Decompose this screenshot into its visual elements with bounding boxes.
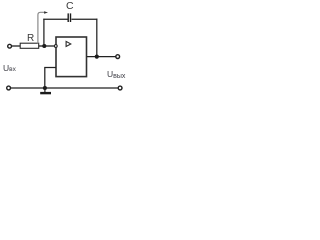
wire feedback vertical up <box>43 19 45 46</box>
node: junction dot at feedback tap <box>42 44 46 48</box>
capacitor C plates <box>67 13 69 22</box>
output terminal (right, Uвых) <box>116 55 120 59</box>
op-amp amplifier triangle <box>66 41 71 46</box>
bottom rail wire <box>11 87 118 89</box>
ground <box>44 88 46 92</box>
resistor R <box>20 43 39 48</box>
label Uвх <box>3 63 16 73</box>
wire op-amp output <box>87 56 116 58</box>
label C <box>66 0 74 12</box>
wire feedback right vertical down to output <box>96 19 98 57</box>
node: output junction dot <box>95 55 99 59</box>
wire resistor to op-amp input <box>39 45 55 47</box>
wire capacitor to right corner <box>72 18 98 20</box>
wire non-inverting input <box>45 68 56 89</box>
label Uвых <box>107 69 125 79</box>
node: ground junction dot <box>43 86 47 90</box>
bottom-left terminal <box>7 86 11 90</box>
annotation arrow (gray, curving from resistor up-right) <box>38 12 45 43</box>
inverting input circle on box edge <box>54 45 57 48</box>
label R <box>27 33 34 44</box>
bottom-right terminal <box>118 86 122 90</box>
wire terminal to resistor <box>12 45 20 47</box>
wire feedback top horizontal to capacitor <box>43 18 68 20</box>
input terminal (left, Uвх) <box>8 44 12 48</box>
op-amp U1 box <box>56 37 87 77</box>
